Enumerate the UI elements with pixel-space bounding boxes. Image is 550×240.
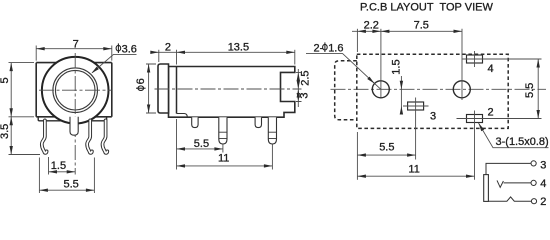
dimension 5 (front left) [9,63,35,117]
dimension 2 (side top) [151,50,295,65]
front outer circle (bushing) [42,57,109,124]
hole 1 (phi 1.6) [372,81,389,98]
svg-text:1.5: 1.5 [51,160,66,172]
dimension 2.5 (side right) [296,69,302,107]
svg-text:6: 6 [135,78,147,84]
svg-text:1.5: 1.5 [391,59,403,74]
dimension 7 (front top) [36,46,112,61]
front leg B [87,120,92,153]
front body square side edges [36,63,112,117]
svg-text:5.5: 5.5 [524,83,536,98]
svg-text:2-: 2- [314,42,324,54]
svg-text:5.5: 5.5 [194,138,209,150]
dimension 5.5 (side bottom) [177,119,223,170]
svg-text:3.6: 3.6 [122,43,137,55]
svg-text:3: 3 [540,160,546,172]
svg-text:3-(1.5x0.8): 3-(1.5x0.8) [496,136,549,148]
svg-text:4: 4 [488,63,494,75]
front horizontal centerline [39,89,112,91]
svg-text:11: 11 [218,153,229,165]
hole 2 (phi 1.6) [453,81,470,98]
svg-text:13.5: 13.5 [228,42,249,54]
dimension 1.5 (pcb) [400,76,402,109]
side long pin 2 [268,117,276,144]
front leg A [42,120,47,153]
svg-text:11: 11 [408,163,419,175]
side flange [158,64,169,113]
front vertical centerline [74,53,76,175]
dimension 5.5 (front bottom) [39,158,94,194]
svg-text:2: 2 [165,42,171,54]
side long pin 1 [219,117,227,144]
svg-text:2: 2 [540,196,546,206]
side stub pin 1 [192,117,198,127]
wire to terminal 2 with spring [488,197,531,201]
front base strip [38,117,106,121]
terminal 4 circle [531,180,536,185]
svg-text:P.C.B LAYOUT TOP VIEW: P.C.B LAYOUT TOP VIEW [360,1,493,13]
svg-text:2.5: 2.5 [300,71,312,86]
dimension 11 (side bottom) [177,145,273,170]
svg-text:5.5: 5.5 [64,179,79,191]
dimension 1.5 (front bottom) [49,157,76,175]
svg-text:7.5: 7.5 [414,20,429,32]
front leg C [103,120,108,153]
terminal 2 circle [531,199,536,204]
side bottom bump [177,114,188,118]
pcb horizontal centerline [331,88,547,90]
dimension 7.5 (pcb top) [381,30,390,33]
dimension phi6 (side left) [146,64,156,113]
pad 2 [467,115,483,123]
dimension 11 (pcb bottom) [357,175,474,177]
svg-text:2: 2 [488,106,494,118]
switch contact 4 [497,180,503,187]
svg-text:3: 3 [299,92,311,98]
dimension 5.5 (pcb bottom) [357,132,415,180]
dimension 13.5 (side top) [294,50,296,65]
front ring circle outer [53,68,98,113]
side stub pin 2 [255,117,261,127]
dimension 3.5 (front left lower) [9,117,41,155]
front center tab pin [70,117,78,135]
dimension 3 (side right) [297,89,300,98]
pcb left bump dashed outline [335,61,357,120]
jack sleeve bar [484,175,489,202]
side centerline [155,88,302,90]
front ring circle inner (hole 3.6) [55,70,95,110]
svg-text:7: 7 [73,39,79,51]
svg-text:3.5: 3.5 [0,124,11,139]
dimension 2.2 (pcb top) [352,29,462,52]
svg-text:2.2: 2.2 [364,20,379,32]
side body front face line [176,67,178,114]
svg-text:4: 4 [540,178,546,190]
label phi3.6 with leader [116,43,121,53]
svg-text:1.6: 1.6 [328,42,343,54]
pcb main dashed outline [357,54,508,128]
pad 4 [467,55,483,63]
side body outline [169,67,295,118]
pad 3 [408,102,424,110]
svg-text:5: 5 [0,77,11,83]
wire to terminal 3 [486,163,531,174]
svg-text:3: 3 [430,111,436,123]
terminal 3 circle [531,161,536,166]
dimension 5.5 (pcb right vertical) [537,59,539,119]
svg-text:5.5: 5.5 [379,141,394,153]
